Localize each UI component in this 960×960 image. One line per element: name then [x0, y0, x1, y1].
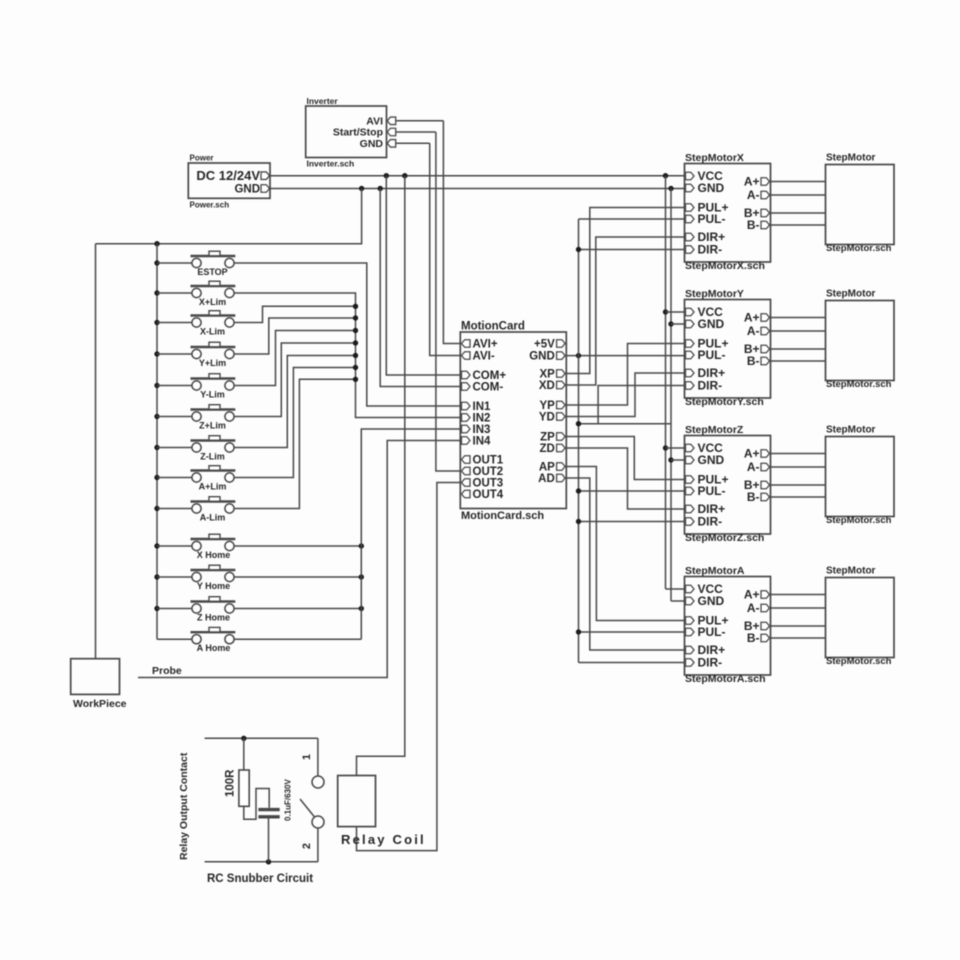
- svg-text:StepMotorY.sch: StepMotorY.sch: [685, 396, 764, 408]
- svg-text:PUL-: PUL-: [698, 212, 726, 226]
- svg-text:Z Home: Z Home: [197, 612, 230, 622]
- svg-text:ESTOP: ESTOP: [197, 267, 227, 277]
- svg-text:B-: B-: [747, 354, 760, 368]
- svg-text:A-: A-: [747, 324, 760, 338]
- svg-text:AD: AD: [538, 473, 555, 485]
- svg-text:1: 1: [301, 754, 313, 760]
- svg-text:Y Home: Y Home: [197, 581, 230, 591]
- svg-text:AVI: AVI: [366, 115, 383, 127]
- svg-text:IN4: IN4: [473, 436, 492, 448]
- svg-text:+5V: +5V: [534, 339, 555, 351]
- svg-text:StepMotorZ.sch: StepMotorZ.sch: [685, 532, 764, 544]
- svg-text:XD: XD: [539, 380, 555, 392]
- svg-text:PUL-: PUL-: [698, 625, 726, 639]
- svg-text:StepMotor: StepMotor: [826, 289, 876, 300]
- svg-text:Inverter.sch: Inverter.sch: [307, 159, 355, 169]
- svg-text:B-: B-: [747, 218, 760, 232]
- svg-text:AVI+: AVI+: [473, 339, 498, 351]
- svg-text:StepMotor: StepMotor: [826, 153, 876, 164]
- svg-text:B-: B-: [747, 490, 760, 504]
- svg-text:StepMotorX.sch: StepMotorX.sch: [685, 260, 765, 272]
- svg-text:DIR-: DIR-: [698, 656, 723, 670]
- svg-text:StepMotorY: StepMotorY: [685, 288, 744, 300]
- svg-text:DC 12/24V: DC 12/24V: [196, 168, 260, 183]
- svg-text:Inverter: Inverter: [307, 96, 339, 106]
- svg-text:Start/Stop: Start/Stop: [333, 127, 383, 139]
- svg-text:DIR-: DIR-: [698, 379, 723, 393]
- svg-text:A-: A-: [747, 601, 760, 615]
- svg-text:GND: GND: [360, 138, 384, 150]
- svg-text:StepMotor.sch: StepMotor.sch: [826, 656, 892, 667]
- svg-text:YD: YD: [539, 412, 555, 424]
- svg-text:RC Snubber Circuit: RC Snubber Circuit: [207, 873, 313, 885]
- svg-text:IN2: IN2: [473, 413, 491, 425]
- svg-text:A+: A+: [744, 588, 760, 602]
- svg-text:A-: A-: [747, 188, 760, 202]
- svg-text:COM-: COM-: [473, 382, 504, 394]
- svg-text:AVI-: AVI-: [473, 351, 495, 363]
- svg-text:StepMotor.sch: StepMotor.sch: [826, 515, 892, 526]
- svg-text:Z-Lim: Z-Lim: [200, 451, 225, 461]
- svg-text:A Home: A Home: [197, 643, 231, 653]
- svg-text:COM+: COM+: [473, 370, 507, 382]
- svg-text:Z+Lim: Z+Lim: [199, 420, 226, 430]
- svg-text:X-Lim: X-Lim: [200, 326, 225, 336]
- svg-text:StepMotorA.sch: StepMotorA.sch: [685, 673, 766, 685]
- svg-text:IN3: IN3: [473, 424, 491, 436]
- svg-text:IN1: IN1: [473, 401, 492, 413]
- svg-text:PUL-: PUL-: [698, 484, 726, 498]
- svg-text:GND: GND: [698, 453, 725, 467]
- svg-text:ZD: ZD: [539, 443, 554, 455]
- svg-text:Relay Output Contact: Relay Output Contact: [178, 752, 190, 860]
- svg-text:AP: AP: [539, 462, 555, 474]
- svg-text:YP: YP: [539, 400, 555, 412]
- svg-text:MotionCard: MotionCard: [461, 321, 525, 333]
- svg-text:DIR-: DIR-: [698, 243, 723, 257]
- svg-text:GND: GND: [234, 184, 260, 196]
- svg-text:Y-Lim: Y-Lim: [200, 389, 225, 399]
- svg-text:OUT1: OUT1: [473, 455, 504, 467]
- svg-text:StepMotor.sch: StepMotor.sch: [826, 243, 892, 254]
- svg-text:OUT3: OUT3: [473, 478, 504, 490]
- svg-text:WorkPiece: WorkPiece: [73, 698, 127, 710]
- svg-text:StepMotorZ: StepMotorZ: [685, 424, 744, 436]
- svg-text:DIR-: DIR-: [698, 515, 723, 529]
- svg-text:StepMotorA: StepMotorA: [685, 565, 745, 577]
- svg-text:0.1uF/630V: 0.1uF/630V: [284, 779, 293, 821]
- svg-text:Probe: Probe: [152, 665, 182, 677]
- svg-text:A+: A+: [744, 447, 760, 461]
- svg-text:MotionCard.sch: MotionCard.sch: [461, 510, 544, 522]
- svg-text:A-Lim: A-Lim: [200, 512, 226, 522]
- svg-text:GND: GND: [698, 594, 725, 608]
- svg-text:StepMotor.sch: StepMotor.sch: [826, 379, 892, 390]
- svg-text:StepMotor: StepMotor: [826, 566, 876, 577]
- svg-text:OUT4: OUT4: [473, 489, 504, 501]
- svg-text:Power: Power: [190, 154, 214, 163]
- svg-text:Power.sch: Power.sch: [190, 201, 230, 210]
- svg-text:X+Lim: X+Lim: [199, 297, 226, 307]
- svg-text:GND: GND: [529, 351, 555, 363]
- svg-text:XP: XP: [539, 369, 555, 381]
- svg-text:GND: GND: [698, 181, 725, 195]
- svg-text:Relay Coil: Relay Coil: [341, 832, 426, 847]
- svg-text:OUT2: OUT2: [473, 466, 504, 478]
- svg-text:StepMotorX: StepMotorX: [685, 152, 744, 164]
- svg-text:X Home: X Home: [197, 550, 231, 560]
- svg-text:B-: B-: [747, 631, 760, 645]
- svg-text:Y+Lim: Y+Lim: [199, 358, 226, 368]
- svg-text:ZP: ZP: [540, 432, 555, 444]
- svg-text:GND: GND: [698, 317, 725, 331]
- svg-text:PUL-: PUL-: [698, 348, 726, 362]
- svg-text:A-: A-: [747, 460, 760, 474]
- svg-text:StepMotor: StepMotor: [826, 425, 876, 436]
- svg-text:100R: 100R: [225, 769, 237, 797]
- svg-text:A+: A+: [744, 175, 760, 189]
- svg-text:A+: A+: [744, 311, 760, 325]
- svg-text:2: 2: [301, 843, 313, 849]
- svg-text:A+Lim: A+Lim: [199, 481, 227, 491]
